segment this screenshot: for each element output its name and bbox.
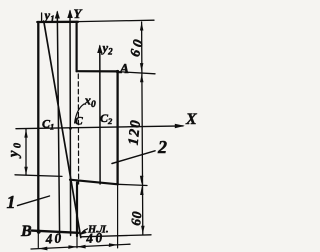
bottom-edge extension line to right	[81, 235, 151, 237]
arrowhead 120 upper (points up to A level)	[140, 74, 144, 83]
y0 dimension line	[25, 129, 27, 175]
neutral line N.L. slant	[44, 23, 81, 238]
arrowhead 60-top lower (points down to A level)	[140, 63, 144, 72]
dot at centroid C	[69, 127, 72, 130]
y1 axis line	[57, 12, 59, 235]
dot at point A	[116, 70, 119, 73]
arrowhead 60-bottom lower (points down)	[141, 226, 145, 235]
right chain dimension line	[142, 22, 143, 235]
y0 lower extension line	[15, 175, 62, 177]
arrowhead bottom dim at right (points right)	[109, 243, 118, 247]
section outline: right edge of flange 2	[116, 71, 118, 184]
arrowhead 60-bottom upper (points up to step)	[140, 187, 144, 196]
svg-text:40: 40	[85, 230, 105, 246]
arrowhead 120 lower (points down to step)	[140, 176, 144, 185]
section outline: bottom step of flange 2	[70, 180, 118, 185]
arrowhead y0 lower	[24, 167, 28, 175]
arrowhead y1 axis	[55, 11, 60, 19]
section outline: right edge of upper web	[75, 22, 77, 71]
arrowhead y0 upper	[24, 129, 28, 137]
svg-text:Y: Y	[74, 6, 83, 21]
arrowhead y2 axis	[97, 45, 102, 54]
bottom extension below flange 2 right edge	[117, 184, 119, 248]
arrowhead X axis	[175, 124, 185, 129]
leader curve for x0	[75, 104, 84, 123]
section outline: top edge of flange 2 (A level)	[77, 70, 118, 72]
leader curve for N.L. label	[81, 229, 88, 235]
Y axis line	[69, 11, 72, 236]
svg-text:60: 60	[128, 210, 144, 226]
arrowhead bottom dim at B (points left)	[39, 247, 48, 251]
arrowhead bottom dim at web (points right)	[68, 245, 77, 249]
svg-text:120: 120	[126, 118, 145, 146]
svg-text:C: C	[75, 114, 84, 128]
svg-text:A: A	[119, 62, 129, 77]
paper background	[0, 0, 202, 252]
section outline: left edge	[37, 22, 39, 232]
section outline: top edge	[37, 21, 78, 24]
X axis line	[16, 126, 183, 129]
leader line for label 2	[112, 151, 155, 164]
arrowhead 60-top upper (points up)	[140, 22, 144, 31]
arrowhead Y axis	[67, 10, 73, 19]
step-level extension line to right	[118, 184, 147, 185]
section outline: right edge of lower web	[76, 183, 78, 237]
section outline: bottom edge	[32, 231, 79, 233]
svg-text:40: 40	[44, 230, 64, 246]
y2 axis line	[99, 46, 101, 184]
dot at point B	[37, 230, 41, 234]
leader line for label 1	[18, 196, 50, 206]
dashed boundary line between rectangles	[77, 74, 79, 184]
top extension line to right	[78, 20, 154, 21]
arrowhead bottom dim at web (points left)	[77, 245, 86, 249]
bottom dimension line	[31, 244, 130, 249]
bottom extension below lower web right edge	[76, 232, 78, 248]
svg-text:X: X	[185, 111, 197, 128]
svg-text:2: 2	[157, 137, 167, 157]
extension line above top-left corner	[41, 13, 43, 22]
arrowhead N.L. leader	[79, 230, 87, 236]
svg-text:1: 1	[7, 192, 16, 212]
A-level extension line to right	[118, 72, 155, 74]
bottom extension below B	[37, 232, 39, 248]
svg-text:B: B	[20, 223, 32, 240]
